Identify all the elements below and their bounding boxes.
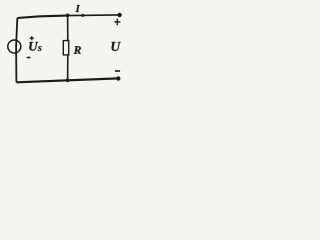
wire top bbox=[17, 16, 67, 18]
current arrow bbox=[82, 14, 87, 18]
label R bbox=[74, 46, 81, 54]
wire resistor branch top bbox=[67, 15, 69, 40]
plus sign of source bbox=[30, 36, 34, 40]
plus sign top right bbox=[114, 19, 120, 25]
terminal dot bottom right bbox=[116, 76, 120, 80]
junction dot top bbox=[66, 14, 70, 18]
minus sign bottom right bbox=[115, 70, 120, 72]
wire left bbox=[16, 18, 17, 82]
resistor R box bbox=[63, 41, 68, 55]
label U bbox=[112, 42, 121, 51]
wire resistor branch bottom bbox=[67, 55, 69, 81]
wire bottom bbox=[16, 78, 118, 82]
label US bbox=[29, 42, 38, 51]
terminal dot top right bbox=[117, 13, 121, 17]
minus sign of source bbox=[27, 57, 31, 59]
label I bbox=[76, 5, 80, 12]
voltage source US circle bbox=[8, 40, 21, 53]
junction dot bottom bbox=[66, 78, 70, 82]
